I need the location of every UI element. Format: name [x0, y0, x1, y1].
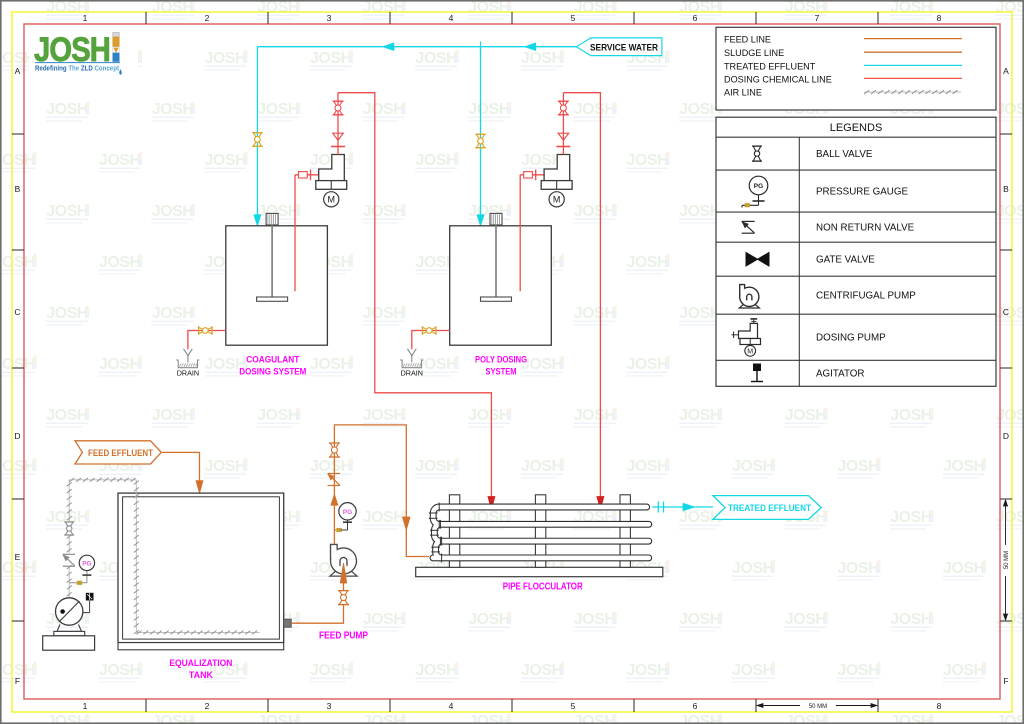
line legend box [716, 27, 996, 110]
service water arrow 2 [525, 43, 536, 51]
service water junction tick [480, 42, 482, 53]
svg-text:4: 4 [449, 701, 454, 711]
svg-text:TREATED EFFLUENT: TREATED EFFLUENT [728, 503, 811, 514]
equalization tank base [118, 643, 284, 650]
svg-text:SERVICE WATER: SERVICE WATER [590, 42, 658, 52]
column numbers bottom [83, 701, 942, 711]
legend pressure gauge symbol [742, 176, 768, 207]
poly system drain funnel [400, 349, 423, 378]
border column ticks [146, 12, 878, 712]
svg-text:M: M [747, 349, 753, 356]
service water drop to poly tank [480, 47, 482, 226]
coagulant system pump discharge line [337, 93, 339, 155]
coagulant dosing arrow [488, 497, 495, 510]
svg-text:DOSING CHEMICAL LINE: DOSING CHEMICAL LINE [724, 74, 832, 84]
feed discharge arrow [331, 494, 338, 505]
svg-text:NON RETURN VALVE: NON RETURN VALVE [816, 223, 915, 234]
flocculator coil pipes [429, 503, 649, 563]
coagulant system tank [226, 226, 328, 345]
feed non return valve [328, 474, 341, 486]
flocculator feed arrow [403, 517, 411, 530]
svg-text:DRAIN: DRAIN [401, 368, 423, 377]
service water drop to coagulant tank [256, 47, 258, 226]
row letters left [14, 66, 20, 686]
svg-text:EQUALIZATION: EQUALIZATION [169, 658, 232, 669]
border row ticks [12, 134, 1012, 621]
svg-text:D: D [1003, 431, 1009, 441]
svg-text:5: 5 [571, 701, 576, 711]
poly system drain line [412, 331, 450, 350]
air line upper [67, 478, 260, 634]
poly system label line1 [475, 354, 527, 364]
ball valve on coagulant water drop [252, 133, 263, 147]
svg-text:B: B [1003, 184, 1009, 194]
feed pump suction line2 [343, 578, 345, 591]
feed discharge line [334, 425, 429, 557]
svg-text:D: D [14, 431, 20, 441]
treated effluent flange [658, 502, 663, 513]
svg-text:DOSING SYSTEM: DOSING SYSTEM [239, 366, 306, 376]
poly system discharge reducer [558, 133, 569, 140]
air line sample [864, 90, 961, 94]
svg-text:3: 3 [327, 13, 332, 23]
poly system suction valve [524, 170, 536, 181]
feed arrow into tank [196, 481, 203, 494]
svg-text:SYSTEM: SYSTEM [486, 366, 517, 376]
svg-text:8: 8 [937, 13, 942, 23]
coagulant system drain funnel [176, 349, 199, 378]
air non return valve [63, 554, 75, 566]
coagulant system label line1 [246, 354, 299, 364]
legend centrifugal pump symbol [739, 285, 759, 308]
coagulant system label line2 [239, 366, 306, 376]
svg-text:2: 2 [205, 13, 210, 23]
svg-text:C: C [14, 307, 20, 317]
coagulant system discharge flange [331, 146, 345, 148]
svg-text:3: 3 [327, 701, 332, 711]
coagulant system dosing pump [316, 155, 347, 207]
air line mid [67, 535, 72, 553]
flocculator label [503, 582, 584, 593]
svg-text:B: B [15, 184, 21, 194]
feed pump label [319, 631, 368, 642]
svg-text:A: A [1003, 66, 1009, 76]
poly system discharge ball valve [558, 101, 569, 115]
legends table box [716, 117, 996, 386]
equalization tank outer [118, 493, 284, 642]
svg-text:6: 6 [693, 701, 698, 711]
right 50MM dimension [1004, 500, 1011, 620]
feed pump [330, 544, 357, 576]
svg-text:FEED PUMP: FEED PUMP [319, 631, 368, 642]
bottom 50MM dimension [757, 704, 877, 711]
poly dosing arrow [597, 497, 604, 510]
svg-text:C: C [1003, 307, 1009, 317]
svg-text:50 MM: 50 MM [1004, 551, 1010, 569]
svg-text:M: M [328, 195, 336, 205]
row letters right [1003, 66, 1009, 686]
legend non return valve symbol [742, 221, 755, 233]
legend ball valve symbol [752, 146, 762, 161]
water arrow into poly tank [477, 215, 484, 226]
svg-text:PG: PG [754, 183, 763, 190]
svg-text:TREATED EFFLUENT: TREATED EFFLUENT [724, 61, 816, 71]
svg-text:4: 4 [449, 13, 454, 23]
svg-text:PG: PG [343, 509, 352, 516]
svg-text:1: 1 [83, 701, 88, 711]
legend gate valve symbol [746, 253, 769, 267]
coagulant system drain ball valve [199, 326, 213, 335]
svg-text:FEED EFFLUENT: FEED EFFLUENT [88, 448, 153, 459]
svg-text:PIPE FLOCCULATOR: PIPE FLOCCULATOR [503, 582, 584, 593]
feed suction gate valve [338, 591, 349, 605]
equalization tank label1 [169, 658, 232, 669]
air blower [43, 593, 95, 650]
legend dosing pump symbol [732, 319, 761, 356]
legends row labels [816, 149, 916, 380]
coagulant system discharge ball valve [333, 101, 344, 115]
equalization tank inner [123, 497, 280, 639]
coagulant system suction valve [299, 170, 311, 181]
legend agitator symbol [751, 364, 763, 382]
svg-text:6: 6 [693, 13, 698, 23]
flocculator posts [449, 495, 630, 568]
feed pump pressure gauge [334, 503, 356, 532]
svg-text:LEGENDS: LEGENDS [830, 122, 883, 134]
poly discharge jog [563, 93, 600, 498]
air ball valve [64, 522, 74, 535]
poly system pump discharge line [562, 93, 564, 155]
svg-text:PG: PG [82, 561, 91, 568]
svg-text:GATE VALVE: GATE VALVE [816, 255, 875, 266]
treated effluent arrow [683, 503, 695, 511]
service water banner [576, 38, 662, 56]
svg-text:2: 2 [205, 701, 210, 711]
svg-text:1: 1 [83, 13, 88, 23]
service water main line [257, 46, 576, 48]
svg-text:50 MM: 50 MM [809, 704, 827, 710]
svg-text:DOSING PUMP: DOSING PUMP [816, 333, 886, 344]
coagulant system agitator [257, 213, 288, 301]
svg-text:7: 7 [815, 13, 820, 23]
ball valve on poly water drop [475, 134, 486, 148]
svg-text:TANK: TANK [189, 670, 213, 681]
feed ball valve [329, 443, 340, 457]
coagulant system pump suction dip tube [294, 175, 296, 291]
poly system tank [450, 226, 552, 345]
poly system discharge flange [556, 146, 570, 148]
svg-text:E: E [15, 552, 21, 562]
svg-text:AGITATOR: AGITATOR [816, 369, 864, 380]
poly system pump suction dip tube [519, 175, 521, 291]
svg-text:DRAIN: DRAIN [177, 368, 199, 377]
poly system dosing pump [541, 155, 572, 207]
JOSHI logo [30, 27, 138, 77]
water arrow into coagulant tank [254, 215, 261, 226]
coagulant system discharge reducer [333, 133, 344, 140]
treated effluent banner [713, 496, 821, 520]
svg-text:AIR LINE: AIR LINE [724, 87, 762, 97]
svg-text:BALL VALVE: BALL VALVE [816, 149, 873, 160]
svg-text:A: A [15, 66, 21, 76]
svg-text:F: F [15, 676, 20, 686]
feed pump suction line [291, 605, 343, 624]
svg-text:FEED LINE: FEED LINE [724, 35, 771, 45]
air pressure gauge branch [69, 555, 94, 584]
coagulant system drain line [188, 331, 226, 350]
poly system drain ball valve [422, 326, 436, 335]
svg-text:COAGULANT: COAGULANT [246, 354, 299, 364]
treated effluent line [652, 506, 713, 508]
feed effluent banner [75, 441, 161, 464]
svg-text:PRESSURE GAUGE: PRESSURE GAUGE [816, 187, 908, 198]
poly system agitator [481, 213, 512, 301]
poly system pump suction line [520, 174, 544, 176]
equalization tank label2 [189, 670, 213, 681]
svg-text:5: 5 [571, 13, 576, 23]
feed suction arrow [340, 563, 346, 583]
svg-text:Redefining The ZLD Concept: Redefining The ZLD Concept [35, 64, 119, 73]
coagulant system pump suction line [295, 174, 319, 176]
legends title [830, 122, 883, 134]
svg-text:CENTRIFUGAL PUMP: CENTRIFUGAL PUMP [816, 291, 916, 302]
coagulant discharge jog [338, 93, 491, 498]
service water arrow 1 [383, 43, 394, 51]
feed effluent line [161, 452, 199, 481]
svg-text:M: M [553, 195, 561, 205]
tank outlet nozzle [284, 619, 292, 627]
flocculator base [416, 567, 663, 576]
svg-text:8: 8 [937, 701, 942, 711]
air blower line [67, 565, 72, 597]
svg-text:POLY DOSING: POLY DOSING [475, 354, 527, 364]
line legend labels [724, 35, 962, 98]
poly system label line2 [486, 366, 517, 376]
legends table grid [716, 137, 996, 386]
svg-text:SLUDGE LINE: SLUDGE LINE [724, 48, 784, 58]
svg-text:F: F [1003, 676, 1008, 686]
column numbers top [83, 13, 942, 23]
